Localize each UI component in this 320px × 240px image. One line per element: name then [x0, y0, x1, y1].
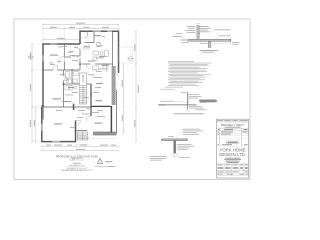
band end cap	[229, 38, 231, 42]
bottom hatched wall borders	[93, 131, 117, 133]
beam	[162, 139, 188, 141]
tail marks below wall	[186, 110, 189, 112]
window ticks top-left wall	[47, 43, 60, 45]
bottom cells verticals	[223, 164, 225, 176]
filled rows	[218, 131, 219, 134]
section marker diamond right	[128, 56, 134, 62]
dimension line top level1	[42, 23, 120, 25]
sheet border	[14, 19, 250, 180]
vertical wall at 91	[90, 84, 92, 116]
mid-south wall	[42, 106, 91, 108]
wall stud above	[197, 26, 199, 40]
bottom dimension lines	[41, 145, 120, 151]
horizontal siding lines	[158, 103, 196, 105]
hatched existing wall left	[41, 105, 44, 120]
top tiny row	[217, 119, 248, 122]
REVISIONS band	[227, 141, 239, 144]
bottom-left text	[150, 156, 167, 160]
right-of-stud labels	[200, 26, 240, 45]
dimension line top level2	[42, 28, 120, 30]
dim labels level2	[50, 27, 57, 28]
interior partitions	[43, 31, 113, 130]
window openings (double thin lines)	[42, 31, 112, 141]
svg-text:PROJECT INFO.: PROJECT INFO.	[221, 123, 245, 127]
cell labels	[217, 164, 248, 167]
north arrow	[94, 158, 115, 167]
extension lines top	[43, 24, 119, 44]
stairs	[80, 73, 87, 104]
wall x=80 lower part	[79, 49, 81, 56]
dark scribble patch (earth hatch)	[199, 99, 217, 102]
mid-right labels	[178, 144, 195, 150]
wall between bedroom1/bedroom2	[63, 44, 65, 56]
caption detail1	[200, 49, 218, 52]
inner walls near laundry/bath cluster	[71, 70, 73, 84]
existing floor double line left	[180, 39, 189, 41]
handwritten values	[218, 167, 248, 168]
wall above deck	[76, 130, 88, 132]
left labels	[160, 100, 173, 103]
exterior wall step + top-right + right	[80, 31, 119, 73]
hatched existing wall right	[112, 66, 116, 105]
top-right labels	[183, 129, 203, 135]
ensuite fixtures	[93, 51, 109, 61]
table header row	[218, 128, 219, 131]
issued row	[218, 143, 219, 146]
label above beam	[168, 135, 174, 138]
vertical wall line	[187, 92, 189, 110]
wall y=64 right part	[82, 63, 91, 65]
caption detail2	[174, 112, 204, 115]
floor band hatched	[189, 39, 231, 41]
porch steps	[78, 132, 88, 140]
door stubs (dark)	[79, 63, 81, 65]
address lines	[224, 158, 241, 163]
exterior wall top-left + left	[43, 31, 119, 107]
door arcs	[53, 44, 91, 126]
door stub in mid-south wall	[73, 104, 75, 110]
mid wall y=70	[43, 69, 53, 71]
dimension line top level3	[42, 39, 81, 41]
post below band	[208, 41, 210, 47]
extra note line above	[160, 88, 174, 91]
closet divider	[64, 56, 71, 58]
right wall lower	[116, 90, 118, 134]
hatched existing wall bottom-right	[93, 132, 116, 135]
section marker diamond left	[28, 55, 33, 60]
room labels	[50, 35, 109, 124]
linen closet lines	[83, 46, 90, 49]
post	[174, 141, 176, 154]
laundry area walls	[80, 42, 81, 44]
scattered tiny annotation marks in plan	[49, 36, 107, 139]
bottom rows	[217, 171, 248, 174]
left+bottom wall lower	[42, 107, 76, 142]
right dimension lines	[123, 30, 138, 142]
laundry interior stub + closet	[84, 31, 100, 46]
vertical wall x=63.5	[63, 70, 65, 76]
dashed deck outline right	[76, 47, 133, 145]
dimension line left	[31, 43, 33, 143]
heavy interior vertical wall right	[110, 106, 112, 132]
svg-text:SCALE : 1/4" = 1'-0": SCALE : 1/4" = 1'-0"	[69, 159, 85, 162]
footing marks at post bottom	[172, 154, 179, 158]
left extension lines	[32, 44, 43, 142]
dim label 36ft	[76, 23, 85, 24]
top labels right of wall	[189, 94, 201, 98]
below-line labels	[189, 106, 206, 110]
bath/laundry fixtures cluster	[64, 64, 108, 90]
left label stack	[172, 26, 195, 43]
svg-text:DESIGN LTD.: DESIGN LTD.	[219, 152, 246, 157]
insulation squiggle along stud	[199, 26, 200, 38]
